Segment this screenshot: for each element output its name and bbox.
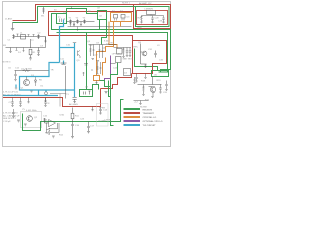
ground below J1 [11, 29, 14, 31]
keying box lower right [124, 69, 131, 76]
cap C13 [126, 48, 128, 57]
transistor Q2 circle [27, 116, 33, 122]
teal stub above branch [74, 43, 76, 48]
wire: green branch down beside PA box into rx mixer box [135, 49, 158, 71]
PA cap [154, 51, 156, 58]
wire: green IF line down to detector [86, 33, 88, 90]
crystal Y2 [76, 19, 78, 23]
left rx input top line [14, 36, 46, 38]
svg-text:ALL CAPS IN uF: ALL CAPS IN uF [3, 114, 20, 117]
PA ground [141, 64, 147, 67]
svg-text:LM380N: LM380N [145, 9, 154, 11]
wire: crystal LO orange C to mixer [103, 58, 106, 76]
left bottom caps column [12, 109, 14, 117]
top-right inner red box [137, 11, 168, 25]
osc cluster ground row [92, 59, 100, 62]
border frame [3, 2, 171, 147]
svg-text:OPTIONAL VFO LO: OPTIONAL VFO LO [143, 120, 163, 123]
buffer bottom wire [111, 63, 116, 65]
transformer T1 green box [57, 14, 67, 24]
wire: receive green inner loop vertical and bus1 wrapping right [52, 14, 171, 72]
resistor R20 [140, 16, 142, 24]
svg-text:C IN pF: C IN pF [3, 121, 11, 123]
long black vertical divider wire [65, 66, 67, 99]
wire: transmit red bus diving under AF section [3, 89, 101, 107]
crystal oscillator orange box [111, 13, 132, 22]
buffer box U4 upper [117, 49, 123, 55]
diode column inside wrap [34, 77, 36, 86]
ground stub left [9, 48, 11, 53]
svg-text:J1 ANT: J1 ANT [5, 18, 13, 21]
ground under mixer box [95, 81, 97, 84]
feedback resistor loop 1 [47, 123, 58, 131]
teal stub left column [15, 85, 17, 88]
cap C4 with ground [37, 48, 39, 56]
svg-text:RECEIVE: RECEIVE [143, 109, 153, 111]
PA transistor circle [142, 51, 147, 56]
transistor Q7 [150, 87, 156, 93]
svg-text:NOTE 1: NOTE 1 [122, 2, 131, 4]
mixer transformer orange box [94, 76, 100, 81]
components under PA box [135, 74, 137, 83]
transistor Q5 marks [78, 51, 81, 59]
input cap to op-amp [43, 118, 48, 123]
op-amp U7 [49, 120, 56, 127]
legend purple bar [124, 120, 141, 122]
inductor L1 box [21, 35, 26, 40]
right bottom audio stage wire [138, 77, 162, 85]
ground in osc box [24, 124, 27, 126]
ground under op-amp [52, 136, 55, 138]
T/R teal left branch wrapping switch module [20, 63, 75, 91]
svg-text:4.7K 10 uF 100: 4.7K 10 uF 100 [3, 92, 19, 94]
buffer box U4 lower [116, 57, 122, 63]
wire: green bfo run bottom-left [23, 100, 124, 131]
cap C19 [129, 48, 131, 57]
cap C2 [37, 34, 39, 39]
lower wire right circuit [134, 101, 149, 105]
cap x=88 [87, 122, 90, 134]
relay K1 component at teal bus end [45, 90, 47, 92]
top-right box interior block [147, 11, 156, 15]
detector box innards [84, 91, 91, 95]
cap column right outside [165, 81, 167, 91]
ground from detector feed [91, 107, 93, 112]
T/R teal main vertical to AF gain pot [74, 48, 76, 98]
oscillator cluster top wire [89, 44, 117, 46]
wire: receive green bus2 wrapping right into rx mixer box [57, 33, 168, 73]
svg-text:SEE NOTE 2: SEE NOTE 2 [3, 118, 17, 120]
cap C18 [159, 85, 161, 94]
top-right interior bus [142, 15, 164, 16]
oscillator enclosure box bottom-left [21, 112, 42, 128]
resistor R1 vertical [30, 39, 32, 48]
filter shunt cap ground 1 [73, 22, 75, 26]
wire: transmit red nested loop left vertical and mid bus [49, 12, 134, 41]
svg-text:NOISE: NOISE [140, 107, 147, 109]
AF gain pot at teal end [73, 97, 77, 103]
svg-text:CRYSTAL LO: CRYSTAL LO [143, 116, 157, 119]
svg-text:RX: RX [3, 45, 7, 47]
note box speaker [97, 104, 109, 127]
cap C1 [12, 34, 14, 39]
rx mixer green box right [152, 71, 169, 77]
svg-text:ALL W .01 MONO: ALL W .01 MONO [3, 93, 21, 96]
cap near staircase [105, 92, 108, 94]
svg-text:4.7K 33 .01 TO: 4.7K 33 .01 TO [3, 113, 18, 115]
svg-text:NOTE 3: NOTE 3 [3, 62, 12, 64]
wire: transmit red staircase from PA box [101, 74, 132, 89]
PA red box with notch [132, 41, 167, 74]
svg-text:4.001 MHz: 4.001 MHz [26, 110, 37, 112]
cap C11 beside teal [61, 63, 67, 64]
svg-text:U7A: U7A [60, 114, 65, 117]
resistor R17 [142, 85, 144, 96]
osc lower components column B [100, 62, 102, 74]
svg-text:8 OHM: 8 OHM [99, 121, 106, 123]
small parts beside IF line [83, 64, 89, 77]
crystal Y3 [83, 19, 85, 23]
wire: antenna green pair inner and top-right green box [13, 7, 170, 27]
wire: green stub from detector to mixer [93, 85, 99, 90]
crystal Y1 [69, 19, 71, 23]
ground below wrap [30, 91, 32, 92]
agc bus line [68, 26, 132, 28]
T/R teal tap from filter [60, 20, 64, 63]
green detector box [80, 90, 93, 97]
oscillator cluster component column R21 [90, 45, 92, 57]
component column left of box [14, 71, 16, 82]
crystal filter line [67, 21, 95, 23]
teal stub near cap [63, 61, 65, 65]
wire: green from mixer box to audio vertical [100, 81, 111, 87]
scattered component labels [8, 8, 168, 137]
cap C28 [151, 16, 153, 23]
wire: antenna red pair to top bus and top-right box outline [13, 5, 171, 29]
orange stub X2 [120, 22, 122, 27]
legend red bar [124, 112, 141, 114]
junction tick on green loop [71, 7, 73, 9]
wire: antenna jack ground lead [12, 23, 14, 29]
legend labels [143, 109, 163, 127]
wire: green mixer input from black box [111, 63, 118, 87]
feedback resistor loop 2 [47, 123, 60, 135]
wire: green drops from if-amp box [100, 20, 107, 45]
left column caps near PA [133, 77, 135, 83]
ground under Q7 [151, 96, 153, 97]
svg-text:SPKR: SPKR [99, 108, 105, 110]
cap C29 [162, 16, 164, 23]
resistor R14 [122, 48, 124, 58]
svg-text:T-R CIRCUIT: T-R CIRCUIT [143, 125, 157, 127]
component chain x=72 [72, 108, 74, 114]
svg-text:Q1 TR SW: Q1 TR SW [21, 69, 32, 71]
oscillator cluster component column R22 [99, 45, 101, 59]
crystal X2 in osc box [121, 15, 125, 19]
junction dots mixer [91, 69, 92, 70]
svg-text:LM386: LM386 [105, 119, 112, 121]
crystal X1 in osc box [114, 15, 118, 19]
buffer wire y=47.5 [114, 47, 132, 49]
filter shunt cap ground 2 [80, 22, 82, 26]
svg-text:RFC: RFC [134, 47, 139, 49]
wire: optional VFO purple line [105, 56, 111, 82]
agc left components [70, 23, 79, 30]
svg-text:GND: GND [137, 27, 142, 29]
T/R teal link down [38, 90, 40, 96]
svg-text:AF GAIN: AF GAIN [69, 103, 78, 106]
legend orange bar [124, 116, 141, 118]
svg-text:TRANSMIT: TRANSMIT [143, 112, 155, 115]
wire: green audio parallel return [109, 81, 111, 97]
PA transistor lead [141, 44, 143, 65]
osc lower components column A [97, 62, 99, 74]
wire: crystal LO orange A into buffer box [109, 22, 117, 49]
legend teal bar [124, 124, 141, 126]
switch stage top wire [15, 70, 49, 72]
svg-text:AGC: AGC [108, 26, 113, 29]
svg-text:TR: TR [51, 70, 54, 72]
svg-text:8.047: 8.047 [104, 40, 110, 42]
wire: green filter loop top [67, 9, 98, 24]
left rx second line [6, 37, 46, 48]
cap C3 with ground [44, 37, 46, 43]
svg-text:SEE TEXT: SEE TEXT [123, 59, 134, 61]
extra parts on rx second line [16, 48, 25, 52]
oscillator cluster component column C22 [102, 45, 104, 59]
T/R teal branch to main vertical [60, 47, 75, 49]
caps hanging from red bus x=12 [11, 98, 13, 107]
antenna stub connector [42, 7, 44, 14]
ground under R1 [29, 55, 32, 60]
legend green bar [124, 108, 141, 110]
caps hanging from red bus x=28 [27, 98, 29, 103]
gray pot wires near divider [50, 94, 66, 107]
wire: crystal LO orange B descending with jogs [97, 22, 114, 76]
extra caps on rx top line [17, 34, 35, 37]
caps hanging from red bus x=20 [19, 98, 21, 107]
T/R teal bus lower [3, 95, 58, 97]
transistor Q1 inside teal wrap [24, 80, 30, 86]
oscillator cluster component column C21 [93, 45, 95, 57]
cap C14 under red U [99, 107, 101, 115]
if amp green box [98, 11, 107, 20]
svg-text:AF AMP 12V: AF AMP 12V [139, 2, 152, 5]
wire: green audio vertical with stub [111, 87, 114, 126]
junction on green bus [46, 121, 48, 123]
resistor R2 horizontal [23, 70, 30, 72]
caps hanging from red bus x=45 [44, 98, 46, 107]
